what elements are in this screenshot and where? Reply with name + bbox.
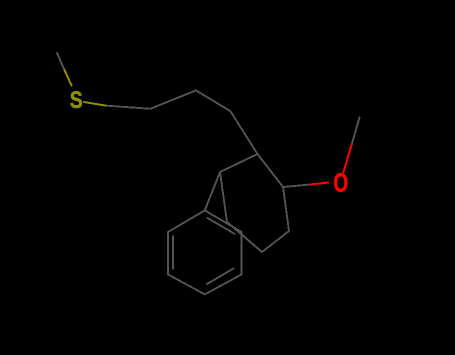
svg-text:S: S [70,87,83,114]
svg-text:O: O [333,169,348,197]
